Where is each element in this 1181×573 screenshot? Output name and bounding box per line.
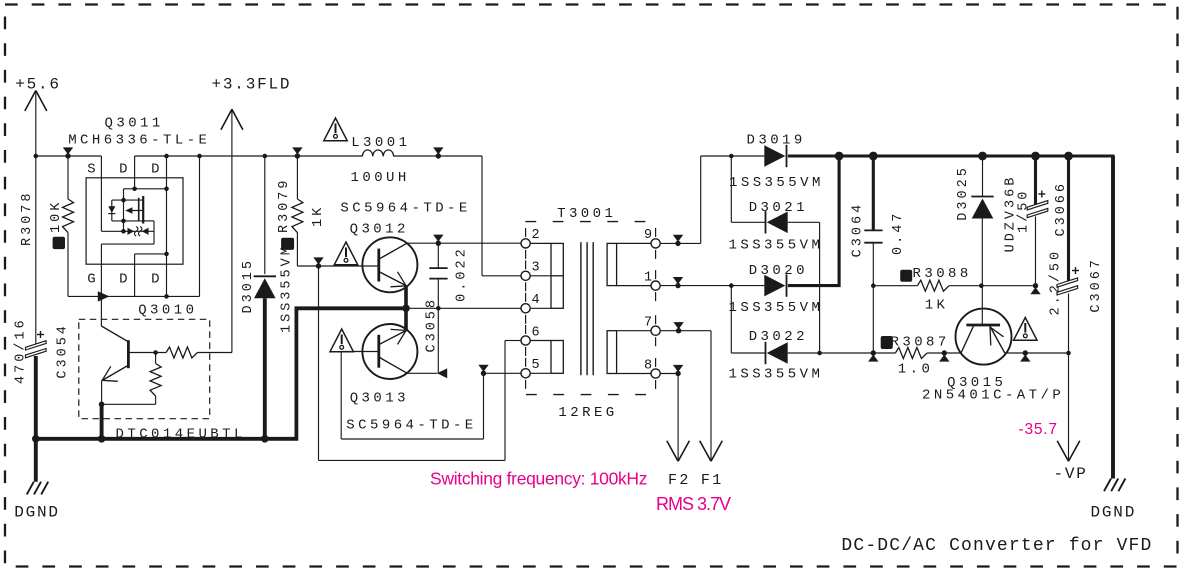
capacitor C3054 470/16 <box>37 334 44 336</box>
wire pin9 to D3019 <box>660 242 701 244</box>
T3001 pin 3 <box>521 271 530 280</box>
T3001 pin 5 <box>521 369 530 378</box>
svg-text:Q3013: Q3013 <box>350 391 409 407</box>
svg-text:G: G <box>87 271 99 287</box>
svg-text:Q3011: Q3011 <box>105 116 164 132</box>
diode D3025 UDZV36B (zener) <box>978 152 987 161</box>
svg-text:Q3010: Q3010 <box>138 303 197 319</box>
svg-text:D3015: D3015 <box>241 258 256 314</box>
svg-text:7: 7 <box>644 316 652 331</box>
wire G pin (Q3010) <box>100 264 102 296</box>
inductor L3001 100UH <box>324 118 347 141</box>
svg-text:L3001: L3001 <box>351 135 410 151</box>
capacitor C3064 0.47 <box>869 152 878 161</box>
svg-text:1SS355VM: 1SS355VM <box>729 175 824 191</box>
svg-text:470/16: 470/16 <box>14 317 29 384</box>
node -VP output <box>1057 441 1068 462</box>
resistor R3079 1K <box>292 147 302 154</box>
svg-text:0.47: 0.47 <box>891 211 906 255</box>
T3001 core <box>580 242 582 375</box>
svg-text:C3054: C3054 <box>56 323 71 379</box>
wire Q3012 base <box>297 265 378 267</box>
svg-text:0.022: 0.022 <box>455 246 470 302</box>
wire S pin <box>100 156 102 178</box>
svg-text:+5.6: +5.6 <box>15 76 61 94</box>
svg-text:1SS355VM: 1SS355VM <box>280 244 295 333</box>
wire Q3012 collector to pin2 <box>407 242 521 244</box>
svg-text:DC-DC/AC Converter for VFD: DC-DC/AC Converter for VFD <box>841 536 1152 556</box>
svg-text:1SS355VM: 1SS355VM <box>729 300 824 316</box>
resistor R3078 10K <box>63 147 73 154</box>
svg-text:DGND: DGND <box>14 504 60 522</box>
svg-text:10K: 10K <box>49 200 64 233</box>
T3001 primary winding (pins 2,3,4) <box>551 243 563 308</box>
T3001 pin 6 <box>521 336 530 345</box>
wire Q3015 emitter to -VP <box>1005 352 1069 354</box>
svg-text:D3020: D3020 <box>749 263 808 279</box>
wire DTC collector <box>100 296 102 326</box>
svg-text:-35.7: -35.7 <box>1019 421 1058 438</box>
capacitor C3058 0.022 <box>437 243 439 268</box>
wire pin8 to F2 <box>660 373 678 375</box>
wire rail to T3001 pin3 <box>481 156 483 276</box>
wire D pins bottom <box>134 264 136 296</box>
wire D pins top <box>134 156 136 178</box>
svg-text:T3001: T3001 <box>557 206 616 222</box>
svg-text:Q3012: Q3012 <box>350 221 409 237</box>
svg-text:+3.3FLD: +3.3FLD <box>212 76 292 94</box>
T3001 pin 7 <box>651 326 660 335</box>
transistor DTC014EUBTL (digital) <box>79 319 210 418</box>
svg-text:6: 6 <box>532 325 540 340</box>
wire Q3013 emitter (thick) <box>404 308 408 330</box>
wire pin1 to D3020 <box>660 285 764 287</box>
svg-text:D: D <box>151 162 163 178</box>
diode D3015 1SS355VM <box>264 156 266 274</box>
svg-text:1K: 1K <box>311 205 326 227</box>
svg-text:5: 5 <box>532 358 540 373</box>
wire gate-drain row <box>68 295 200 297</box>
wire DGND bus (right, thick) <box>788 156 1113 200</box>
T3001 pin 8 <box>651 369 660 378</box>
svg-text:12REG: 12REG <box>558 405 617 421</box>
wire emitter junction to pin4 <box>406 307 521 309</box>
svg-text:RMS 3.7V: RMS 3.7V <box>656 494 731 514</box>
svg-text:1K: 1K <box>925 298 949 314</box>
wire Q3012 emitter (thick) <box>404 286 408 309</box>
wire D3021 anode to D3022 anode <box>819 222 821 353</box>
svg-text:100UH: 100UH <box>351 170 410 186</box>
ground DGND (right) <box>1111 156 1115 479</box>
svg-text:D: D <box>119 271 131 287</box>
svg-text:C3067: C3067 <box>1089 257 1104 313</box>
Q3011 gate protection diodes <box>128 228 135 235</box>
svg-text:-VP: -VP <box>1054 465 1088 483</box>
svg-text:C3064: C3064 <box>851 202 866 258</box>
svg-text:SC5964-TD-E: SC5964-TD-E <box>346 418 476 434</box>
T3001 secondary winding (pins 9,1) <box>607 243 617 285</box>
svg-text:D3021: D3021 <box>749 200 808 216</box>
ground DGND (left) <box>34 439 38 482</box>
svg-text:8: 8 <box>644 358 652 373</box>
resistor DTC internal BE R <box>155 353 157 364</box>
svg-text:R3088: R3088 <box>913 266 972 282</box>
Q3011 internal circuit <box>100 178 102 232</box>
wire Q3013 base to pin5 <box>341 351 379 353</box>
resistor R3087 1.0 <box>881 336 893 349</box>
wire switched rail <box>135 155 363 157</box>
transistor Q3015 2N5401C-AT/P <box>1014 318 1037 341</box>
capacitor C3066 1/50 <box>1031 152 1040 161</box>
wire DGND bus (left, thick) <box>36 308 406 439</box>
svg-text:R3078: R3078 <box>20 190 35 246</box>
T3001 pin 4 <box>521 304 530 313</box>
svg-text:DTC014EUBTL: DTC014EUBTL <box>116 427 246 443</box>
svg-text:1.0: 1.0 <box>898 361 934 377</box>
wire Q3013 collector <box>407 372 437 374</box>
svg-text:9: 9 <box>644 228 652 243</box>
svg-text:1SS355VM: 1SS355VM <box>729 237 824 253</box>
svg-text:F2: F2 <box>668 472 691 489</box>
svg-text:MCH6336-TL-E: MCH6336-TL-E <box>68 132 210 148</box>
Q3011 body diode <box>111 200 113 221</box>
wire Q3012 base to pin6 <box>318 266 320 460</box>
svg-text:2: 2 <box>532 228 540 243</box>
T3001 secondary winding (pins 7,8) <box>607 331 617 374</box>
node F2 output <box>667 441 678 462</box>
svg-text:D: D <box>151 271 163 287</box>
wire pin7 to F1 <box>660 330 711 332</box>
T3001 pin 1 <box>651 281 660 290</box>
svg-text:2.2/50: 2.2/50 <box>1049 249 1064 316</box>
resistor DTC internal base R <box>128 352 166 354</box>
svg-text:F1: F1 <box>701 472 724 489</box>
T3001 pin 9 <box>651 239 660 248</box>
T3001 feedback winding (pins 6,5) <box>551 341 563 374</box>
svg-text:1/50: 1/50 <box>1017 189 1032 233</box>
svg-text:DGND: DGND <box>1091 504 1137 522</box>
svg-text:R3079: R3079 <box>277 177 292 233</box>
svg-text:1SS355VM: 1SS355VM <box>729 367 824 383</box>
svg-text:1: 1 <box>644 270 652 285</box>
T3001 pin 2 <box>521 239 530 248</box>
svg-text:D: D <box>119 162 131 178</box>
capacitor C3067 2.2/50 <box>1064 152 1073 161</box>
svg-text:D3019: D3019 <box>747 132 806 148</box>
svg-text:D3022: D3022 <box>749 329 808 345</box>
svg-text:2N5401C-AT/P: 2N5401C-AT/P <box>922 388 1064 404</box>
wire +5.6 rail <box>36 155 102 157</box>
svg-text:4: 4 <box>532 293 540 308</box>
node F1 output <box>700 441 711 462</box>
svg-text:Switching frequency: 100kHz: Switching frequency: 100kHz <box>430 468 648 488</box>
resistor R3088 1K <box>900 270 912 282</box>
svg-text:C3058: C3058 <box>425 297 440 353</box>
wire DTC emitter (thick) <box>100 404 104 439</box>
svg-text:S: S <box>87 162 99 178</box>
svg-text:D3025: D3025 <box>956 165 971 221</box>
svg-text:SC5964-TD-E: SC5964-TD-E <box>340 201 470 217</box>
svg-text:3: 3 <box>532 261 540 276</box>
